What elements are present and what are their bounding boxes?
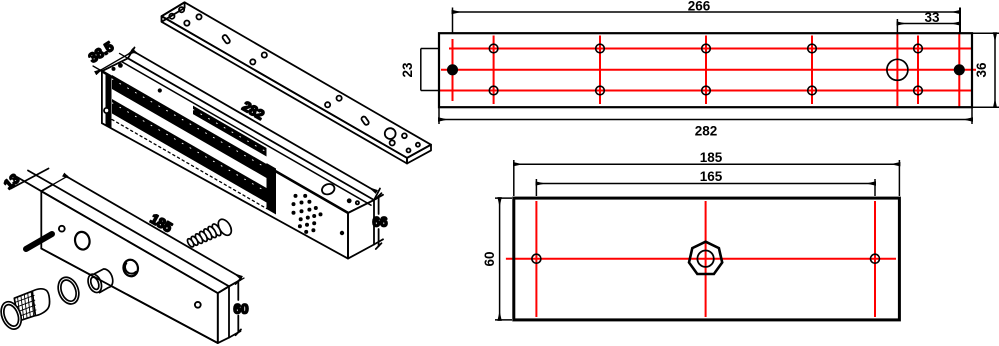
svg-text:60: 60 <box>482 251 497 266</box>
hole c6 bottom <box>914 86 923 95</box>
mounting screw <box>186 217 234 248</box>
center hex boss <box>689 242 722 274</box>
screw threads <box>211 223 223 237</box>
dim 60 tick top <box>236 278 242 284</box>
dim 36 extension bottom <box>973 106 999 108</box>
svg-text:13: 13 <box>1 171 23 192</box>
dim 282 line <box>439 119 972 121</box>
mplate hole 1 <box>169 14 174 19</box>
dim 66 ext bottom <box>374 239 383 244</box>
bushing cylinder <box>86 269 113 295</box>
centerline vertical col2 <box>493 36 495 105</box>
mplate hole 2 <box>179 7 184 12</box>
lock body top face <box>102 58 374 213</box>
large wire hole <box>887 59 908 80</box>
centerline vertical col1 <box>452 39 454 101</box>
centerline vertical col5 <box>811 36 813 105</box>
magnet lamination band C <box>112 99 267 203</box>
dim 282 extension left <box>438 108 440 124</box>
dim 38.5 ext stub back <box>120 53 132 60</box>
magnet recess right wall <box>267 163 277 215</box>
armature right end face <box>218 286 229 343</box>
dim 185 line <box>514 163 900 165</box>
dim 33 line <box>897 23 960 25</box>
mplate slot 2 <box>361 116 370 126</box>
dim 185 ext left <box>41 176 67 191</box>
armature plate bottom edge over bushing <box>41 249 218 344</box>
hole c6 top <box>914 44 923 53</box>
washer o-ring <box>54 274 82 307</box>
mplate hole 3 <box>184 21 189 26</box>
centerline vertical col4 <box>705 36 707 105</box>
knurled anchor <box>0 289 50 332</box>
lock body front face <box>102 71 348 258</box>
band B lamination speckles <box>112 79 267 168</box>
body top hole mid2 <box>248 141 252 145</box>
mplate hole 8 <box>337 96 342 101</box>
dim 60 ext top <box>229 280 241 287</box>
speaker grid <box>292 194 323 234</box>
svg-text:282: 282 <box>240 98 267 122</box>
dim 66 tick bottom <box>376 243 382 249</box>
armature hole center chamfer arc <box>125 263 136 273</box>
body top hole 1 <box>112 67 116 71</box>
band C lamination speckles <box>112 103 267 192</box>
body front led <box>340 231 344 235</box>
dim 36 line <box>994 33 996 107</box>
dim 60 extension top <box>495 197 512 199</box>
body top hole mid1 <box>158 88 162 92</box>
dim 60 tick bottom <box>236 329 242 335</box>
mplate slot 1 <box>222 34 231 44</box>
centerline vertical col3 <box>599 36 601 105</box>
body rim screw hole left <box>104 108 109 113</box>
dim 185 extension left <box>513 160 515 196</box>
svg-text:60: 60 <box>233 302 248 317</box>
dim 60 extension bottom <box>495 319 512 321</box>
dim 165 extension left <box>535 179 537 196</box>
svg-text:266: 266 <box>688 0 711 14</box>
dim 282 extension right <box>971 108 973 124</box>
knurl hatch <box>15 292 36 321</box>
left hole <box>532 254 541 263</box>
mplate hole 4 <box>196 14 201 19</box>
centerline vertical col6 <box>917 36 919 105</box>
top face core band <box>193 106 267 157</box>
guide pin <box>26 234 52 249</box>
mplate hole 11 <box>407 148 411 152</box>
centerline vertical right hole <box>874 201 876 317</box>
hole c4 bottom <box>702 86 711 95</box>
top face channel line <box>121 62 371 206</box>
right hole <box>871 254 880 263</box>
dim 66 line top <box>378 196 380 214</box>
magnet bottom dotted line <box>112 120 267 209</box>
mplate hole 7 <box>325 102 330 107</box>
dim 266 extension left <box>452 8 454 34</box>
right anchor filled hole <box>955 65 965 75</box>
mounting plate right end cap <box>407 145 431 164</box>
hole c3 top <box>596 44 605 53</box>
body top sensor hole <box>320 182 335 196</box>
screw head <box>216 217 234 238</box>
dim 13 ext line back <box>28 171 53 185</box>
armature plate front face <box>41 191 218 343</box>
dim 185 iso line <box>64 175 241 278</box>
plate outline <box>439 33 972 107</box>
centerline vertical large hole <box>896 33 898 106</box>
body top led dot <box>347 198 352 203</box>
dim 165 line <box>536 183 875 185</box>
dim 23 bracket vertical <box>420 49 422 91</box>
armature hole small left <box>59 226 65 232</box>
svg-text:185: 185 <box>700 150 723 165</box>
body top small hole <box>356 201 359 204</box>
armature plate outline <box>514 198 900 320</box>
dim 38.5 ext stub front <box>93 66 106 74</box>
centerline horizontal top row <box>449 48 971 50</box>
svg-text:185: 185 <box>148 211 175 235</box>
dim 23 bracket top <box>421 48 439 50</box>
magnet lamination band B <box>112 75 267 178</box>
front top edge emphasized <box>102 71 348 213</box>
anchor flange <box>0 299 25 332</box>
dim 60 ext bottom <box>229 331 241 338</box>
armature hole big left <box>73 230 91 250</box>
dim 38.5 line <box>96 51 134 73</box>
mplate big wire hole <box>385 128 396 139</box>
centerline horizontal middle <box>441 69 976 71</box>
dim 185 ext right <box>218 278 244 293</box>
armature hole center chamfered <box>122 258 140 277</box>
dim 36 extension top <box>973 32 999 34</box>
armature hole small right <box>195 302 201 308</box>
svg-text:33: 33 <box>924 10 940 25</box>
anchor knurled barrel <box>14 291 35 321</box>
centerline horizontal bottom row <box>438 90 971 92</box>
svg-text:38.5: 38.5 <box>86 39 117 66</box>
mplate hole 9 <box>390 140 395 145</box>
svg-text:36: 36 <box>974 62 989 78</box>
dim 60 line <box>499 198 501 320</box>
svg-text:66: 66 <box>372 215 388 230</box>
body top hole 2 <box>118 63 123 68</box>
magnet recess left wall <box>106 73 112 128</box>
center hole circle <box>697 251 713 267</box>
dim 13 line <box>11 169 49 189</box>
dim 60 line top <box>237 281 239 300</box>
dim 282 iso ext right <box>374 189 380 201</box>
mounting plate front edge <box>162 16 407 163</box>
dim 266 line <box>453 11 961 13</box>
lock body right end face <box>348 200 374 259</box>
mplate hole 6 <box>262 52 267 57</box>
centerline horizontal <box>506 258 896 260</box>
dim 185 extension right <box>898 160 900 196</box>
mounting plate left end cap <box>162 2 185 22</box>
dim 282 iso line <box>132 51 376 192</box>
dim 33 extension left <box>896 19 898 33</box>
armature plate top face <box>41 185 229 294</box>
centerline vertical right anchor <box>958 32 960 107</box>
mounting plate top face <box>162 2 431 158</box>
dim 66 line bottom <box>378 229 380 246</box>
dim 165 extension right <box>874 179 876 196</box>
anchor cap <box>32 289 49 316</box>
dim 13 ext line front <box>17 177 41 191</box>
dim 60 line bottom <box>237 316 239 333</box>
hole c5 bottom <box>808 86 817 95</box>
hole c2 bottom <box>489 86 498 95</box>
svg-text:23: 23 <box>400 62 415 78</box>
hole c5 top <box>808 44 817 53</box>
hole c4 top <box>702 44 711 53</box>
dim 66 tick top <box>376 193 382 199</box>
dim 23 bracket bottom <box>421 90 439 92</box>
dim 266 extension right <box>959 8 961 34</box>
hole c2 top <box>489 44 498 53</box>
centerline vertical left hole <box>535 201 537 317</box>
mplate hole 10 <box>402 133 407 138</box>
mplate hole 5 <box>250 59 255 64</box>
dim 66 ext top <box>374 195 383 200</box>
centerline vertical center <box>705 201 707 317</box>
core band lamination speckles <box>193 110 267 153</box>
mplate hole 12 <box>416 143 420 147</box>
svg-text:165: 165 <box>700 169 723 184</box>
left anchor filled hole <box>448 65 458 75</box>
hole c3 bottom <box>596 86 605 95</box>
dim 282 iso ext left <box>128 48 135 59</box>
svg-text:282: 282 <box>695 124 718 139</box>
